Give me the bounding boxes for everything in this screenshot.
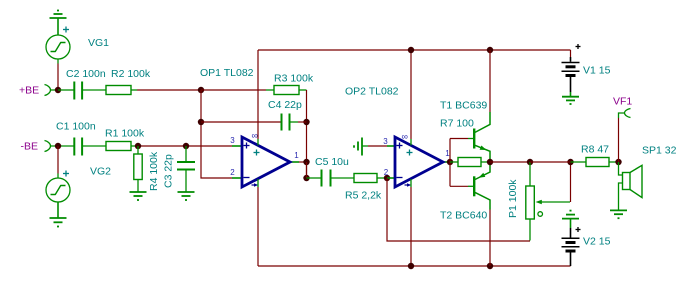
wire C4 right lead [298, 121, 307, 123]
svg-text:T1 BC639: T1 BC639 [440, 100, 487, 112]
wire R3/C4 right vertical to OP1 output [306, 90, 308, 178]
node speaker junction [615, 159, 621, 165]
svg-text:+BE: +BE [19, 85, 39, 97]
generator VG2 [46, 171, 70, 203]
svg-text:1: 1 [294, 151, 299, 160]
svg-text:VF1: VF1 [613, 96, 632, 108]
resistor R1 [106, 142, 138, 151]
svg-text:R8 47: R8 47 [581, 144, 609, 156]
svg-text:R4 100k: R4 100k [148, 151, 160, 191]
wire T1 base [450, 138, 473, 140]
resistor R4 [134, 146, 142, 192]
wire R2 to feedback node A [137, 89, 201, 91]
wire -BE node down to VG2 [57, 146, 59, 178]
node wiper junction [567, 159, 573, 165]
wire OP1 V+ power pin to top rail [257, 50, 259, 145]
node A2 junction C4 left [198, 119, 204, 125]
node OP2 inverting input junction [384, 175, 390, 181]
generator VG1 [46, 27, 70, 60]
svg-text:C4 22p: C4 22p [268, 99, 302, 111]
battery V1 [562, 44, 581, 92]
node -BE junction [55, 143, 61, 149]
svg-text:-BE: -BE [21, 141, 39, 153]
ground above VG1 [50, 11, 67, 36]
potentiometer P1 [526, 162, 570, 241]
wire OP1 output to feedback column [299, 161, 307, 163]
transistor T2 [474, 162, 490, 210]
svg-text:V2 15: V2 15 [583, 236, 611, 248]
svg-text:V1 15: V1 15 [583, 65, 611, 77]
op-amp OP2 [387, 132, 450, 188]
svg-text:3: 3 [230, 136, 235, 145]
node A junction R3 top [198, 87, 204, 93]
node T2 collector on bottom rail [487, 263, 493, 269]
node T1 collector on top rail [487, 47, 493, 53]
ground below C3 [178, 192, 195, 200]
wire P1 node to wiper node [530, 161, 571, 163]
wire emitters to P1 top node [490, 161, 530, 163]
svg-text:R5 2,2k: R5 2,2k [345, 190, 382, 202]
svg-text:C3 22p: C3 22p [163, 154, 175, 188]
wire global feedback OP2 pin2 to P1 bottom [387, 178, 530, 241]
node R4 junction [135, 143, 141, 149]
wire base tap vertical [449, 139, 451, 187]
wire R1 node to C3 node to OP1 pin3 [138, 145, 232, 147]
svg-text:T2 BC640: T2 BC640 [440, 210, 487, 222]
node C3 junction [183, 143, 189, 149]
wire node A to R3 [201, 89, 266, 91]
wire T2 base [450, 185, 473, 187]
resistor R8 [571, 158, 619, 167]
wire node A down to C4 line and OP1 pin2 [201, 90, 232, 178]
svg-text:R2 100k: R2 100k [111, 68, 151, 80]
connector VF1 output [625, 109, 631, 118]
node OP2 output / base tap junction [447, 159, 453, 165]
svg-text:SP1 32: SP1 32 [642, 145, 677, 157]
wire OP1 V- power pin to bottom rail [257, 179, 259, 266]
capacitor C2 [74, 82, 106, 100]
wire T2 collector to bottom rail [489, 210, 491, 267]
wire T1 collector to top rail [489, 50, 491, 112]
svg-text:∞: ∞ [402, 132, 408, 142]
wire VG1 to +BE node [57, 59, 59, 90]
ground below R4 [130, 192, 147, 200]
node +BE junction [55, 87, 61, 93]
svg-text:P1 100k: P1 100k [507, 179, 519, 218]
wire VF1 riser [619, 113, 625, 162]
resistor R5 [354, 174, 387, 183]
wire output down to C5 [306, 162, 308, 178]
node emitters junction [487, 159, 493, 165]
speaker SP1 [619, 162, 643, 210]
capacitor C5 [307, 170, 355, 187]
node C4 right junction [303, 119, 309, 125]
ground below V1 [562, 92, 579, 104]
ground below speaker [610, 210, 627, 218]
svg-text:2: 2 [384, 168, 389, 177]
wire ground to OP2 pin3 [362, 145, 387, 147]
svg-text:OP1 TL082: OP1 TL082 [200, 67, 254, 79]
svg-text:R1 100k: R1 100k [105, 128, 145, 140]
transistor T1 [474, 112, 490, 162]
node C5 corner junction [303, 175, 309, 181]
connector +BE input [45, 85, 59, 96]
capacitor C1 [74, 138, 106, 156]
svg-text:R7 100: R7 100 [440, 118, 474, 130]
op-amp OP1 [232, 131, 299, 188]
svg-text:C5 10u: C5 10u [315, 156, 349, 168]
ground above V2 [562, 211, 579, 228]
wire C4 left lead [201, 121, 281, 123]
svg-text:R3 100k: R3 100k [274, 73, 314, 85]
svg-text:C1 100n: C1 100n [56, 121, 96, 133]
svg-text:∞: ∞ [252, 131, 258, 141]
resistor R2 [106, 86, 137, 95]
top rail V+ [258, 49, 571, 51]
node OP2 V+ on top rail [408, 47, 414, 53]
connector -BE input [45, 141, 74, 152]
wire OP2 V- power pin to bottom rail [410, 179, 412, 266]
ground at OP2 pin3 [354, 138, 362, 156]
resistor R3 [266, 86, 307, 95]
bottom rail V- [258, 265, 571, 267]
wire +BE node to C2 [58, 89, 74, 91]
svg-text:C2 100n: C2 100n [66, 68, 106, 80]
svg-text:3: 3 [383, 137, 388, 146]
wire P1 wiper riser to main line [570, 162, 572, 202]
node OP2 V- on bottom rail [408, 263, 414, 269]
capacitor C4 [282, 114, 299, 131]
svg-text:VG1: VG1 [88, 37, 109, 49]
battery V2 [562, 227, 581, 266]
capacitor C3 [177, 146, 195, 192]
svg-text:VG2: VG2 [90, 166, 111, 178]
svg-text:2: 2 [230, 168, 235, 177]
resistor R7 [450, 158, 490, 167]
node OP1 output junction [303, 159, 309, 165]
ground below VG2 [50, 202, 67, 227]
node P1 top junction [527, 159, 533, 165]
wire OP2 V+ power pin to top rail [410, 50, 412, 145]
svg-text:OP2 TL082: OP2 TL082 [345, 86, 399, 98]
